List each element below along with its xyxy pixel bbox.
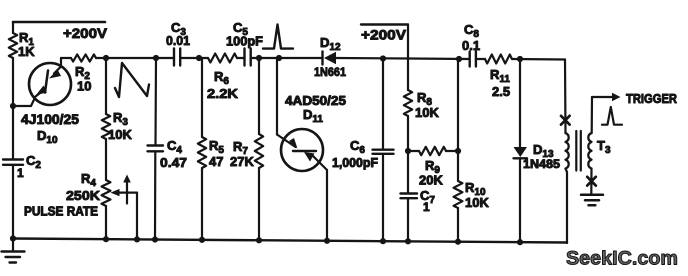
svg-text:2.5: 2.5 bbox=[492, 84, 510, 99]
wire R11 to T3 bbox=[512, 58, 565, 61]
wire T3 primary bottom bbox=[566, 169, 568, 243]
capacitor C6 bbox=[373, 150, 394, 154]
label D11 bbox=[303, 107, 323, 125]
label R10 10K bbox=[465, 180, 489, 210]
node R9 right bbox=[455, 148, 461, 154]
svg-text:C2: C2 bbox=[26, 153, 41, 171]
pot adjust arrow bbox=[123, 175, 131, 204]
wire secondary to trigger bbox=[591, 97, 593, 133]
capacitor C7 chain bbox=[407, 151, 409, 241]
wire +200V supply (right) bbox=[361, 25, 408, 59]
label R9 20K bbox=[419, 158, 443, 188]
svg-text:10K: 10K bbox=[108, 127, 132, 142]
label R7 27K bbox=[230, 139, 254, 169]
label T3 bbox=[597, 138, 611, 156]
transistor D10 internals bbox=[36, 67, 61, 96]
node R10 bottom bbox=[455, 239, 461, 245]
svg-text:R4: R4 bbox=[81, 171, 96, 189]
wire D12 to +200V node bbox=[336, 57, 408, 60]
resistor R6 bbox=[208, 54, 237, 63]
wire C5 to D12 bbox=[252, 57, 322, 59]
svg-text:SeekIC.com: SeekIC.com bbox=[566, 248, 678, 270]
label R11 2.5 bbox=[490, 67, 510, 99]
node wiper bottom bbox=[134, 236, 140, 242]
svg-text:R3: R3 bbox=[113, 110, 128, 128]
capacitor C4 bbox=[148, 146, 164, 152]
waveform pulse (trigger) bbox=[602, 107, 622, 125]
capacitor C5 bbox=[245, 49, 251, 66]
resistor R5 chain bbox=[198, 58, 206, 240]
label R4 250K bbox=[66, 171, 101, 203]
svg-text:4AD50/25: 4AD50/25 bbox=[285, 93, 346, 108]
svg-text:+200V: +200V bbox=[63, 25, 108, 41]
node C7 bottom bbox=[405, 238, 411, 244]
node C6 bottom bbox=[380, 238, 386, 244]
capacitor C2 bbox=[3, 160, 23, 165]
svg-text:1,000pF: 1,000pF bbox=[332, 156, 378, 170]
resistor R3 bbox=[102, 58, 110, 139]
svg-text:0.47: 0.47 bbox=[160, 155, 187, 170]
resistor R7 chain bbox=[255, 58, 263, 240]
svg-text:+200V: +200V bbox=[361, 27, 407, 43]
label R3 10K bbox=[108, 110, 132, 142]
waveform pulse (C5) bbox=[263, 25, 293, 49]
node R9 left bbox=[405, 148, 411, 154]
wire +200V supply rail top-left bbox=[13, 21, 105, 24]
diode D12 bbox=[323, 52, 337, 65]
svg-text:1: 1 bbox=[17, 166, 24, 180]
svg-text:PULSE RATE: PULSE RATE bbox=[24, 205, 98, 219]
svg-text:250K: 250K bbox=[66, 188, 101, 203]
label C3 0.01 bbox=[166, 20, 190, 48]
node C4 top bbox=[153, 55, 159, 61]
node C6 top bbox=[380, 55, 386, 61]
svg-text:1: 1 bbox=[423, 200, 430, 214]
svg-text:10: 10 bbox=[77, 79, 91, 94]
transformer T3 primary winding bbox=[566, 133, 569, 169]
svg-text:C6: C6 bbox=[350, 138, 365, 156]
label C7 1 bbox=[420, 188, 435, 214]
node C8 left bbox=[456, 56, 462, 62]
node D13 top bbox=[517, 56, 523, 62]
wire C3 to R6 bbox=[181, 57, 208, 59]
node R7 top bbox=[256, 55, 262, 61]
wire left vertical bbox=[12, 58, 14, 239]
label R2 10 bbox=[75, 64, 91, 94]
ground left bbox=[2, 239, 25, 263]
svg-text:10K: 10K bbox=[465, 195, 489, 210]
capacitor C7 bbox=[401, 194, 418, 199]
phasing mark x (bottom) bbox=[587, 177, 596, 186]
resistor R9 bbox=[408, 147, 458, 155]
transistor D11 circle bbox=[281, 129, 323, 171]
node R5 bottom bbox=[199, 237, 205, 243]
label +200V (right) bbox=[361, 27, 407, 43]
wire R2 to node bbox=[96, 57, 106, 59]
node R7 bottom bbox=[256, 237, 262, 243]
label 4AD50/25 bbox=[285, 93, 346, 108]
wire D10 anode to rail bbox=[60, 58, 62, 67]
node junction left-D10 bbox=[10, 103, 16, 109]
label TRIGGER bbox=[626, 92, 677, 106]
label 4J100/25 bbox=[21, 112, 80, 127]
svg-text:0.01: 0.01 bbox=[166, 33, 190, 48]
capacitor C8 bbox=[470, 52, 476, 67]
wire T3 primary top bbox=[564, 60, 567, 134]
label D12 1N661 bbox=[314, 35, 346, 79]
wire secondary bottom bbox=[590, 169, 592, 194]
ground right bbox=[581, 195, 603, 206]
resistor R2 bbox=[71, 54, 96, 61]
wire D10 cathode lead bbox=[13, 90, 45, 107]
svg-text:1K: 1K bbox=[18, 44, 35, 59]
svg-text:10K: 10K bbox=[415, 105, 439, 120]
resistor R10 chain bbox=[454, 59, 463, 242]
node D11 bottom bbox=[324, 238, 330, 244]
wire R6 to C5 bbox=[237, 57, 244, 59]
label C8 0.1 bbox=[462, 22, 480, 53]
wire R3-R4 bbox=[105, 139, 107, 180]
label R6 2.2K bbox=[207, 69, 239, 101]
label C5 100pF bbox=[226, 20, 263, 49]
node bottom-left corner bbox=[10, 235, 16, 241]
node C3-R6-R5 bbox=[196, 55, 202, 61]
transistor D11 internals bbox=[289, 138, 327, 170]
svg-text:27K: 27K bbox=[230, 154, 254, 169]
svg-text:TRIGGER: TRIGGER bbox=[626, 92, 677, 106]
diode D13 bbox=[514, 59, 528, 242]
svg-text:D10: D10 bbox=[37, 128, 58, 146]
resistor R11 bbox=[485, 55, 512, 64]
phasing mark x (top) bbox=[561, 116, 570, 125]
node C4 bottom bbox=[152, 236, 158, 242]
wire bottom rail bbox=[13, 239, 567, 243]
resistor R8 chain bbox=[404, 59, 412, 152]
capacitor C6 chain bbox=[382, 59, 384, 242]
label C2 1 bbox=[17, 153, 41, 180]
node D11 top bbox=[276, 55, 282, 61]
node R4 bottom bbox=[103, 236, 109, 242]
waveform sawtooth bbox=[115, 63, 149, 97]
label C4 0.47 bbox=[160, 138, 187, 170]
wire D11 cathode to rail bbox=[326, 170, 328, 241]
pot wiper arrow bbox=[111, 189, 138, 239]
label R5 47 bbox=[209, 138, 224, 169]
resistor R1 bbox=[9, 22, 17, 58]
node D13 bottom bbox=[517, 239, 523, 245]
wire rail to C3 bbox=[106, 57, 173, 59]
svg-text:D12: D12 bbox=[320, 35, 341, 53]
svg-text:100pF: 100pF bbox=[226, 34, 263, 49]
label R8 10K bbox=[415, 90, 439, 120]
svg-text:0.1: 0.1 bbox=[462, 38, 480, 53]
label D13 1N485 bbox=[523, 142, 560, 171]
label C6 1000pF bbox=[332, 138, 378, 170]
svg-text:R11: R11 bbox=[490, 67, 510, 85]
label D10 bbox=[37, 128, 58, 146]
node R2-R3 bbox=[103, 55, 109, 61]
svg-text:C4: C4 bbox=[167, 138, 182, 156]
wire trigger arrow bbox=[592, 93, 621, 101]
wire rail start bbox=[61, 57, 71, 59]
wire rail to C8 bbox=[408, 57, 469, 60]
label R1 1K bbox=[18, 30, 35, 59]
svg-text:T3: T3 bbox=[597, 138, 611, 156]
label PULSE RATE bbox=[24, 205, 98, 219]
svg-text:1N485: 1N485 bbox=[523, 157, 560, 171]
transistor D10 circle bbox=[29, 63, 71, 105]
svg-text:D11: D11 bbox=[303, 107, 323, 125]
capacitor C4 chain bbox=[155, 58, 156, 240]
svg-text:47: 47 bbox=[209, 154, 223, 169]
capacitor C3 bbox=[174, 49, 180, 66]
svg-text:20K: 20K bbox=[419, 173, 443, 188]
svg-text:R6: R6 bbox=[214, 69, 229, 87]
svg-text:2.2K: 2.2K bbox=[207, 86, 239, 101]
transformer T3 core bbox=[576, 131, 581, 171]
label +200V (left) bbox=[63, 25, 108, 41]
svg-text:4J100/25: 4J100/25 bbox=[21, 112, 80, 127]
resistor R4 (pot) bbox=[102, 180, 111, 239]
wire D11 anode lead bbox=[277, 58, 296, 147]
watermark SeekIC.com bbox=[566, 248, 678, 270]
transformer T3 secondary winding bbox=[588, 133, 591, 169]
svg-text:1N661: 1N661 bbox=[314, 65, 346, 79]
wire C8 to R11 bbox=[477, 58, 485, 60]
